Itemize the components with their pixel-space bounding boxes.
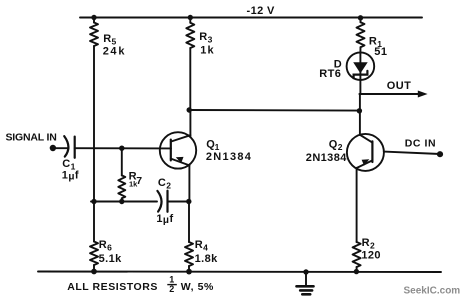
- svg-text:ALL RESISTORS: ALL RESISTORS: [67, 281, 158, 293]
- svg-text:W, 5%: W, 5%: [181, 281, 214, 293]
- svg-text:RT6: RT6: [319, 68, 341, 80]
- svg-text:OUT: OUT: [387, 80, 411, 92]
- svg-text:1.8k: 1.8k: [195, 253, 218, 265]
- svg-text:SeekIC.com: SeekIC.com: [404, 286, 460, 297]
- svg-text:2N1384: 2N1384: [206, 151, 252, 163]
- svg-text:DC IN: DC IN: [405, 138, 436, 150]
- svg-text:2: 2: [169, 284, 174, 294]
- svg-text:5.1k: 5.1k: [99, 253, 122, 265]
- svg-text:SIGNAL IN: SIGNAL IN: [6, 131, 57, 143]
- svg-text:24k: 24k: [103, 46, 126, 58]
- svg-text:1k: 1k: [200, 44, 214, 56]
- svg-text:7: 7: [136, 175, 142, 187]
- svg-text:1μf: 1μf: [62, 170, 79, 183]
- svg-text:2N1384: 2N1384: [306, 152, 347, 164]
- svg-text:120: 120: [361, 249, 381, 261]
- svg-text:51: 51: [374, 46, 387, 58]
- svg-text:-12 V: -12 V: [247, 5, 276, 17]
- svg-text:1μf: 1μf: [156, 213, 173, 226]
